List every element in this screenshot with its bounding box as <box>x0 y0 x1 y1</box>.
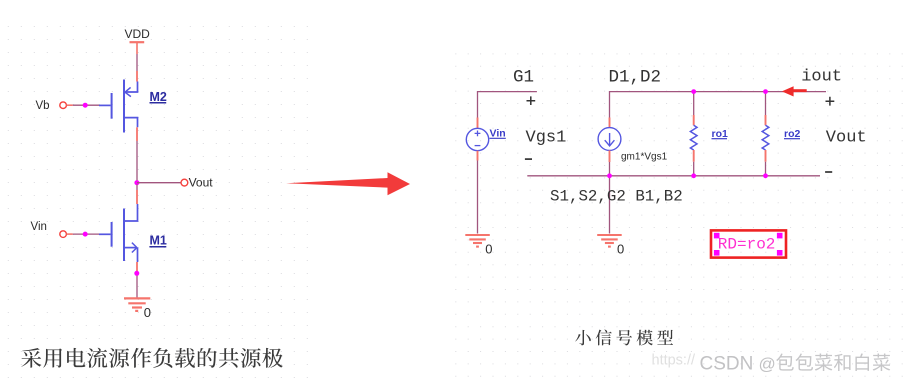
label ro1 <box>712 128 729 140</box>
current arrow iout <box>782 86 807 96</box>
junction dot on Vin wire <box>83 232 88 237</box>
ground 0 (under current source) <box>597 235 624 257</box>
svg-text:Vout: Vout <box>826 129 867 148</box>
pin Vout <box>181 176 213 190</box>
label M2 <box>150 90 167 104</box>
polarity + (Vgs1) <box>527 96 536 105</box>
svg-text:RD=ro2: RD=ro2 <box>718 235 776 253</box>
polarity - (Vout) <box>825 171 832 173</box>
wire VDD to M2 source <box>136 54 138 82</box>
watermark <box>652 353 776 375</box>
wire M2 drain to Vout node <box>136 127 138 181</box>
label ro2 <box>784 128 801 140</box>
power supply VDD <box>125 27 151 54</box>
svg-text:VDD: VDD <box>125 27 151 41</box>
svg-text:G1: G1 <box>513 67 534 87</box>
svg-text:iout: iout <box>801 68 842 87</box>
resistor ro2 <box>762 92 769 176</box>
transistor M2 (PMOS) <box>99 80 138 133</box>
svg-text:M2: M2 <box>150 90 167 104</box>
wire Vin source to ground <box>477 161 479 234</box>
wire Vout node to output pin <box>137 182 181 184</box>
caption: 采用电流源作负载的共源极 <box>21 348 282 368</box>
wire current source to S rail and ground <box>609 162 611 234</box>
svg-text:Vin: Vin <box>31 221 47 233</box>
svg-text:CSDN: CSDN <box>700 354 754 375</box>
svg-text:M1: M1 <box>150 234 167 248</box>
junction dot on Vb wire <box>83 103 88 108</box>
svg-text:D1,D2: D1,D2 <box>609 67 662 87</box>
svg-text:@: @ <box>759 355 776 374</box>
svg-text:0: 0 <box>617 242 624 257</box>
label Vin (source) <box>490 128 506 140</box>
svg-text:Vb: Vb <box>36 100 50 112</box>
wire D rail (top) <box>610 92 827 118</box>
junction dots on D rail <box>691 89 768 94</box>
svg-text:Vout: Vout <box>189 176 214 190</box>
polarity + (Vout) <box>826 97 835 106</box>
node Vout junction dot <box>134 180 139 185</box>
svg-text:0: 0 <box>144 305 151 320</box>
junction dot M1 source <box>134 271 139 276</box>
big red arrow <box>286 172 410 195</box>
wire G1 node <box>478 92 537 118</box>
svg-text:0: 0 <box>485 242 492 257</box>
svg-text:Vgs1: Vgs1 <box>526 129 567 148</box>
caption: 小信号模型 <box>575 330 673 346</box>
svg-text:S1,S2,G2 B1,B2: S1,S2,G2 B1,B2 <box>550 188 683 206</box>
resistor ro1 <box>690 92 697 176</box>
label M1 <box>149 234 167 248</box>
current source gm1*Vgs1 <box>598 118 621 163</box>
pin Vb <box>36 100 73 112</box>
wire Vin to M1 gate <box>73 233 99 235</box>
wire S rail (bottom) <box>527 175 820 177</box>
svg-text:https://: https:// <box>652 353 696 369</box>
pin Vin <box>31 221 73 237</box>
ground 0 (under Vin source) <box>465 235 492 257</box>
transistor M1 (NMOS) <box>99 204 138 262</box>
polarity - (Vgs1) <box>525 158 532 160</box>
wire M1 source to ground <box>136 262 138 298</box>
junction dots on S rail <box>607 173 768 178</box>
annotation box RD=ro2 <box>711 230 786 257</box>
svg-text:gm1*Vgs1: gm1*Vgs1 <box>621 151 668 162</box>
ground 0 (left) <box>124 298 151 320</box>
voltage source Vin (small-signal) <box>466 118 488 161</box>
wire Vb to M2 gate <box>73 104 99 106</box>
wire Vout node to M1 drain <box>136 185 138 205</box>
